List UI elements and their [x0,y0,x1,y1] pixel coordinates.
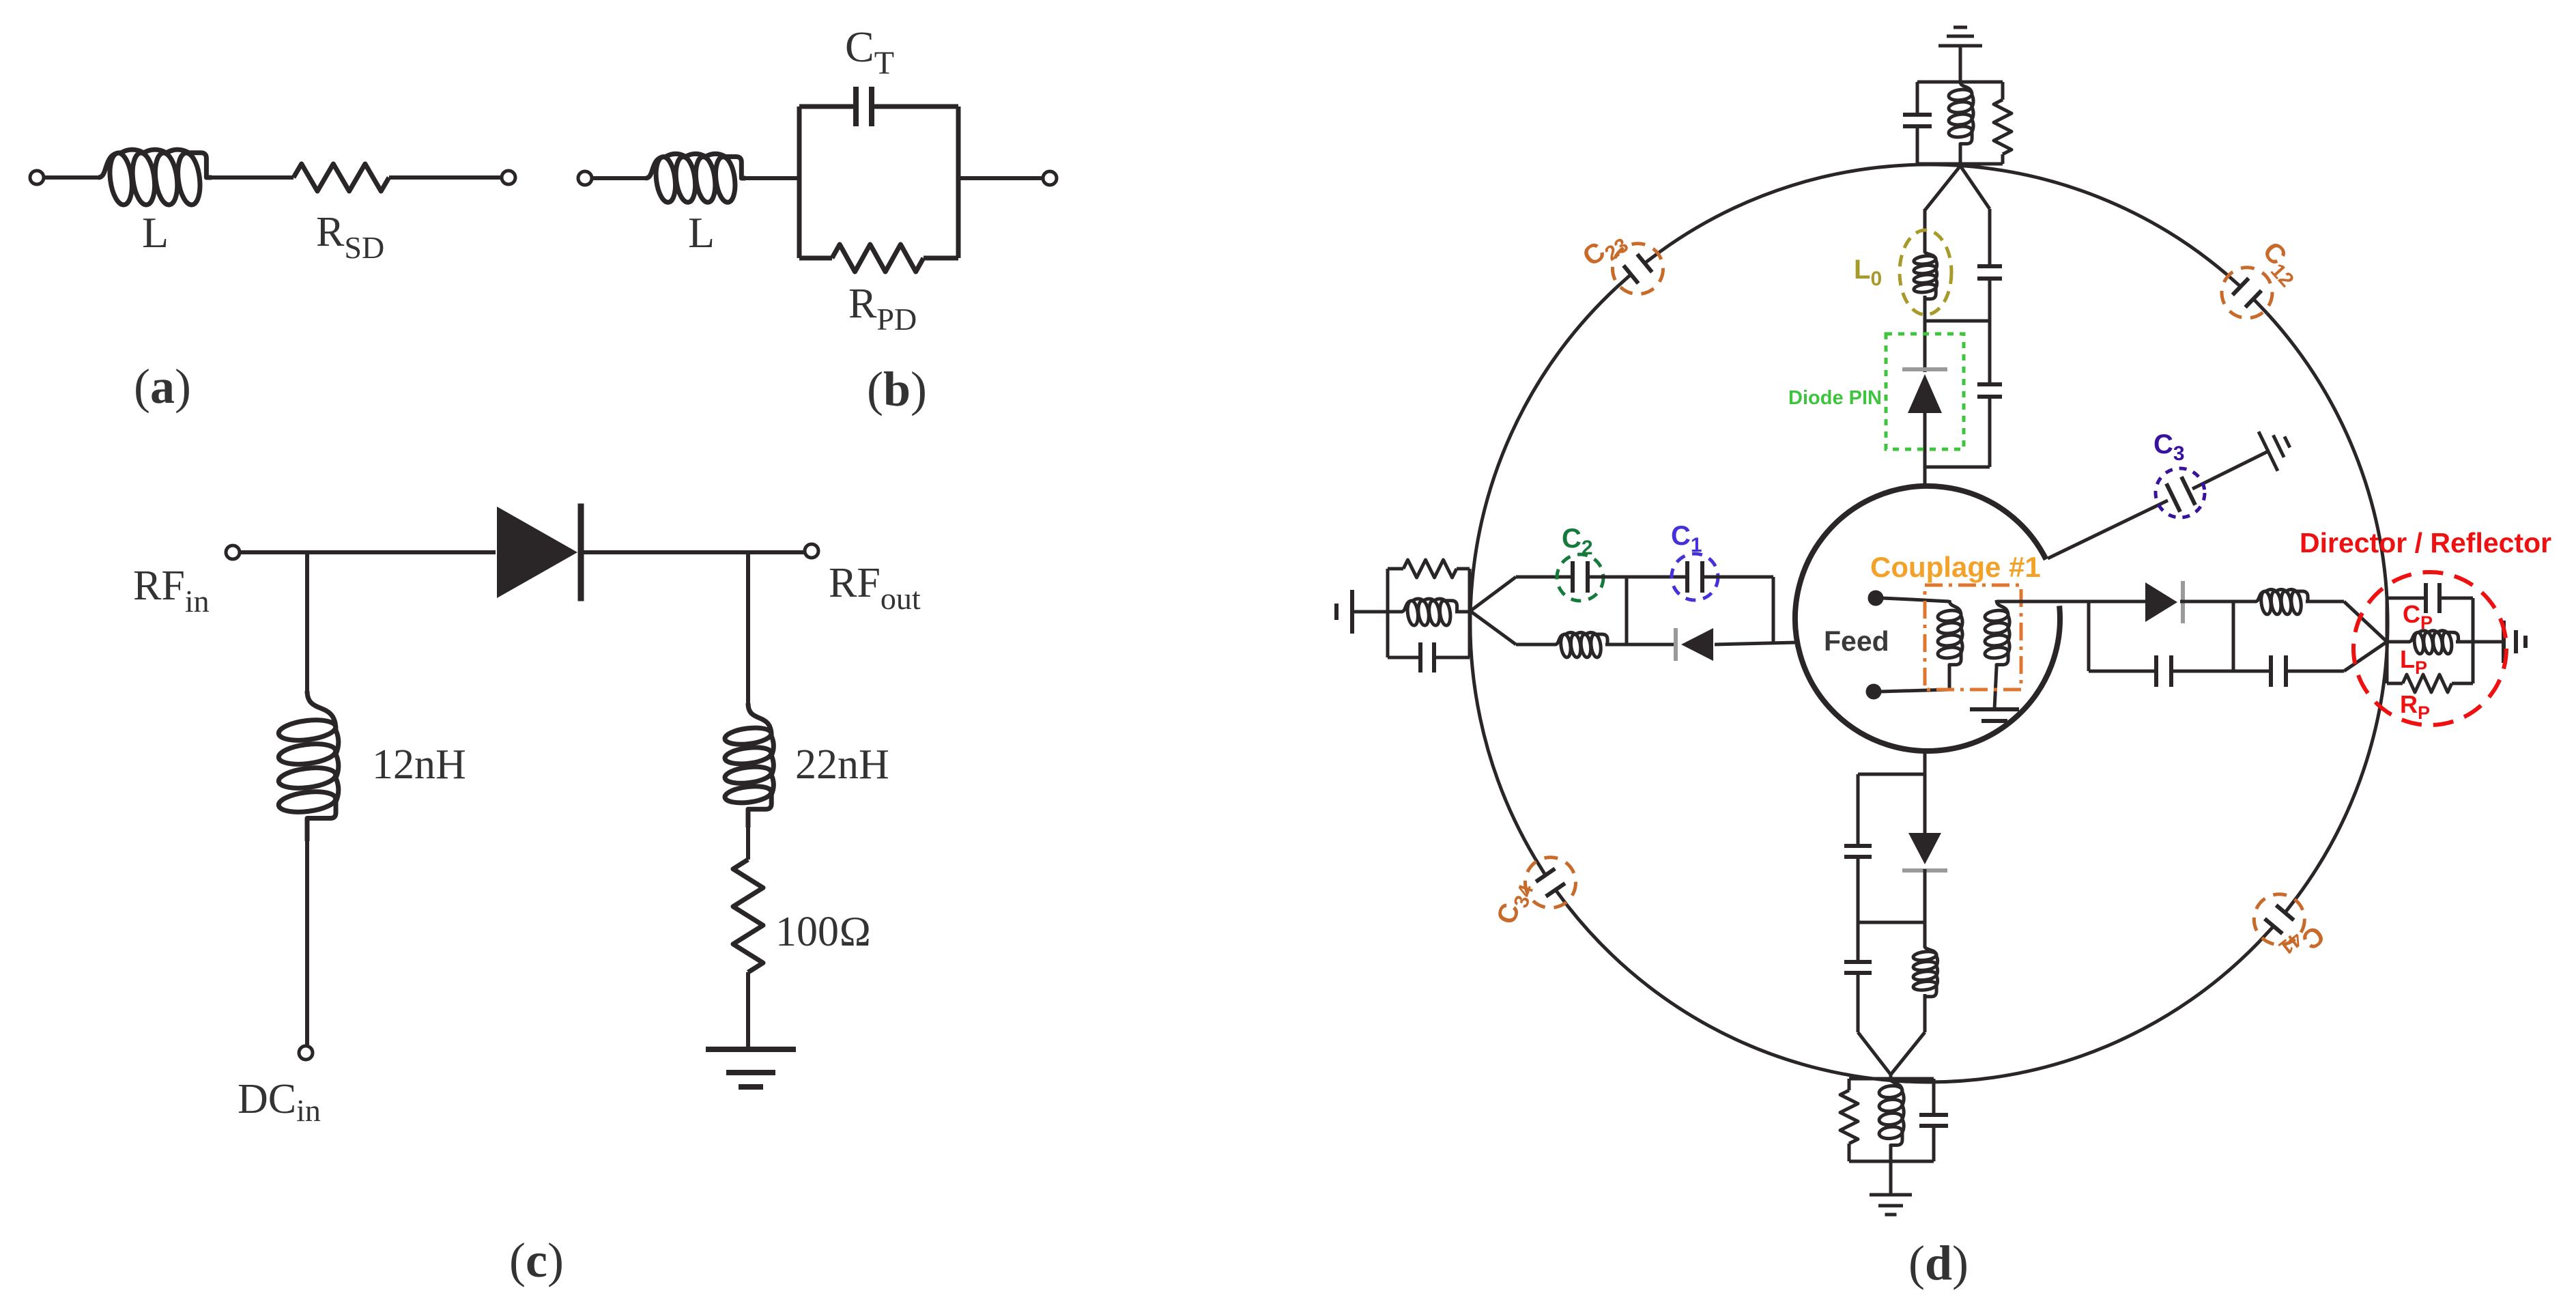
resistor RPD (b) [832,244,924,272]
box top edge left (b) [799,104,854,109]
label C12 (d) [2253,236,2308,292]
top box left edge lower (d) [1916,126,1919,164]
top box right edge stubs (d) [2001,82,2005,164]
wire right lower 3 (d) [2286,670,2344,673]
inductor L (b) [646,154,745,203]
wire bottom-left diagonal (d) [1858,1032,1891,1075]
ground bottom (d) [1870,1195,1912,1215]
ground left (d) [1336,590,1352,634]
inductor 12nH (c) [278,691,339,841]
ground right (d) [2504,621,2525,663]
wire director to ground (d) [2473,640,2504,644]
terminal DCin (c) [299,1046,313,1060]
capacitor bottom branch upper (d) [1844,846,1872,857]
left box left edge (d) [1386,569,1390,657]
wire primary bottom (d) [1948,667,1951,690]
ground (c) [706,1049,796,1087]
box right edge (b) [956,107,961,258]
wire left junction vertical 2 (d) [1772,577,1775,644]
resistor RP (d) [2403,675,2452,692]
inductor 22nH (c) [724,703,774,827]
bottom box left edge upper (d) [1848,1079,1851,1090]
capacitor CT (b) [856,87,872,126]
dashed circle C2 (d) [1557,554,1603,601]
svg-text:Director / Reflector: Director / Reflector [2300,527,2551,558]
svg-text:L: L [142,208,169,257]
terminal RFin (c) [226,545,240,559]
top box bottom edge (d) [1917,162,2003,166]
wire bottom-left vertical 3 (d) [1857,973,1860,1032]
diode PIN box (d) [1886,334,1964,449]
wire left upper 3 (d) [1702,576,1773,579]
svg-text:(b): (b) [867,362,927,416]
label C34 (d) [1491,878,1539,930]
svg-text:(a): (a) [134,359,191,414]
wire secondary bottom to ground (d) [1994,667,1997,709]
director box bottom stub left (d) [2387,682,2403,685]
svg-text:100Ω: 100Ω [775,909,872,955]
wire (a) right [389,175,502,180]
bottom box bottom edge (d) [1849,1160,1934,1163]
diode bottom branch (d) [1902,833,1947,870]
inductor left box (d) [1401,599,1457,626]
wire right upper 2 (d) [2180,600,2257,604]
resistor 100ohm (c) [733,860,763,972]
top box left edge upper (d) [1916,82,1919,115]
box top edge right (b) [874,104,958,109]
wire right lower 2 (d) [2171,670,2271,673]
director box top stub left (d) [2387,597,2426,600]
capacitor top branch upper (d) [1977,266,2002,279]
capacitor C12 on ring (d) [2226,274,2267,314]
transformer secondary coil R (d) [1984,600,2009,668]
diode right branch (d) [2145,581,2183,623]
diode PIN (d) [1902,369,1947,413]
wire bottom-left vertical 2 (d) [1857,857,1860,962]
wire right upper 3 (d) [2306,600,2344,604]
left vertex diagonals (d) [1470,577,1516,644]
wire C3 lower (d) [2048,500,2168,558]
svg-text:Couplage #1: Couplage #1 [1870,551,2041,583]
wire left box middle left (d) [1388,610,1403,614]
feed circle (d) [1795,486,2060,751]
svg-text:L: L [688,208,715,257]
inductor LP (d) [2409,631,2459,655]
wire left lower 1 (d) [1516,643,1556,647]
node top of ring (d) [1925,166,1990,210]
wire right upper 1 (d) [2089,600,2145,604]
bottom box right edge lower (d) [1932,1126,1936,1161]
wire right lower diagonal (d) [2344,642,2387,671]
resistor left box (d) [1403,560,1457,578]
wire LP left (d) [2387,640,2410,644]
subfigure (c): SPST diode switch bias network [133,504,921,1288]
wire bottom connector 2 (d) [1858,921,1925,924]
wire RFin to diode (c) [240,550,496,554]
box left edge (b) [797,107,802,258]
bottom box left edge lower (d) [1848,1144,1851,1161]
wire to DCin (c) [305,840,309,1046]
wire top bottom connector (d) [1925,466,1990,469]
wire (a) left [44,175,100,180]
capacitor C1 (d) [1687,561,1702,593]
wire top-right vertical 2 (d) [1988,279,1992,384]
wire left ground (d) [1352,610,1388,614]
capacitor bottom branch lower (d) [1844,962,1872,973]
wire feed bottom vertical (d) [1923,751,1927,834]
inductor L (a) [98,150,212,206]
label C23 (d) [1577,223,1633,277]
wire coil to resistor (c) [746,826,750,860]
wire diode to RFout (c) [582,550,805,554]
wire feed bottom to transformer (d) [1880,690,1949,692]
svg-text:Feed: Feed [1824,625,1889,657]
bottom box top edge (d) [1849,1077,1934,1081]
left box top stub right (d) [1457,567,1470,571]
inductor left branch (d) [1555,632,1607,657]
capacitor C41 on ring (d) [2260,897,2298,941]
wire diode PIN down (d) [1923,412,1927,487]
wire bottom-right diagonal (d) [1891,1032,1925,1075]
inductor L0 (d) [1913,251,1936,299]
dashed circle C3 (d) [2156,468,2205,518]
wire C3 upper (d) [2192,451,2268,489]
wire left box middle right (d) [1455,610,1470,614]
label C41 (d) [2274,916,2330,969]
wire bottom coil to diagonal (d) [1923,994,1927,1032]
box bottom right stub (b) [924,256,958,261]
wire left junction vertical 1 (d) [1625,577,1629,644]
capacitor CP (d) [2426,583,2439,613]
wire top-right vertical 3 (d) [1988,397,1992,467]
wire (b) right [958,176,1043,180]
feed terminal dot top (d) [1868,591,1883,606]
transformer primary coil L (d) [1937,600,1962,668]
subfigure (b): L + parallel RC model [578,23,1057,416]
svg-text:(c): (c) [509,1233,564,1288]
capacitor top box (d) [1903,115,1932,126]
dashed circle C41 (d) [2254,894,2304,945]
wire top-left vertical upper (d) [1923,209,1927,253]
diode D1 (c) [497,504,581,601]
left box top stub left (d) [1388,567,1403,571]
capacitor C23 on ring (d) [1616,251,1661,288]
diode left branch (d) [1676,628,1713,661]
wire right junction vertical 1 (d) [2087,601,2091,671]
resistor top box (d) [1994,100,2012,154]
dashed circle Director (d) [2353,572,2506,725]
capacitor bottom box (d) [1919,1115,1948,1126]
capacitor top branch lower (d) [1977,384,2002,397]
wire resistor to ground (c) [746,972,750,1049]
wire right upper diagonal (d) [2344,601,2387,642]
director box left edge (d) [2386,598,2389,683]
wire top-right vertical 1 (d) [1988,209,1992,266]
dashed circle C34 (d) [1526,857,1576,908]
terminal right (b) [1043,171,1057,185]
inductor bottom box (d) [1878,1079,1904,1146]
node RFout junction (c) [746,552,750,705]
wire top mid connector (d) [1925,320,1990,323]
wire right junction vertical 2 (d) [2232,601,2235,671]
svg-text:22nH: 22nH [795,741,889,788]
terminal left (b) [578,171,592,185]
left box right edge (d) [1468,569,1472,657]
wire ground to top box (d) [1959,46,1962,82]
capacitor C3 plates (d) [2166,477,2195,511]
terminal RFout (c) [805,544,818,558]
dashed ellipse L0 (d) [1900,230,1951,315]
dashed circle C1 (d) [1672,554,1718,600]
antenna ring (big circle) (d) [1470,165,2388,1082]
inductor right branch (d) [2255,589,2308,614]
resistor bottom box (d) [1840,1090,1858,1144]
wire left lower 3 (d) [1715,642,1797,644]
ground feed (d) [1970,709,2019,721]
wire L0 to diode (d) [1923,296,1927,372]
terminal left (a) [30,171,44,184]
wire right feed out (d) [1997,600,2089,604]
capacitor C34 on ring (d) [1535,858,1568,906]
wire (b) left [592,176,647,180]
left box bottom stub right (d) [1434,656,1470,660]
subfigure (d): reconfigurable antenna schematic [1336,27,2551,1290]
wire (b) to box [744,176,799,180]
subfigure (a): series L + R_SD model [30,150,515,414]
inductor bottom branch (d) [1913,946,1937,997]
wire left upper 2 (d) [1588,576,1687,579]
wire (a) middle [210,175,294,180]
wire top box coil to node (d) [1959,143,1962,166]
dashed circle C23 (d) [1613,244,1663,294]
wire left lower 2 (d) [1605,643,1676,647]
ground C3 (d) [2259,431,2290,471]
dashed circle C12 (d) [2222,268,2272,318]
director box bottom stub right (d) [2452,682,2473,685]
wire diode to connector (d) [1923,869,1927,948]
wire bottom-left vertical 1 (d) [1857,774,1860,846]
node RFin junction (c) [305,552,309,692]
wire bottom box to ground (d) [1889,1161,1893,1195]
resistor RSD (a) [294,164,389,191]
left box bottom stub left (d) [1388,656,1420,660]
wire left upper 1 (d) [1516,576,1573,579]
wire bottom box coil stub (d) [1889,1144,1893,1161]
node bottom vertex stub (d) [1889,1075,1893,1079]
terminal right (a) [502,171,515,184]
capacitor right branch 1 (d) [2156,655,2171,687]
capacitor right branch 2 (d) [2271,655,2286,687]
ground top (d) [1938,27,1982,46]
director box right edge (d) [2472,598,2475,683]
box bottom left stub (b) [799,256,832,261]
wire LP right (d) [2456,640,2473,644]
top box top edge (d) [1917,81,2003,84]
bottom box right edge upper (d) [1932,1079,1936,1115]
feed terminal dot bottom (d) [1866,684,1881,699]
wire bottom connector 1 (d) [1858,773,1925,776]
inductor top box (d) [1948,82,1973,145]
wire feed top to transformer (d) [1882,598,1949,601]
capacitor left box (d) [1420,642,1434,672]
svg-text:(d): (d) [1908,1236,1969,1290]
svg-text:12nH: 12nH [372,741,466,788]
couplage box (d) [1925,585,2021,690]
wire right lower 1 (d) [2089,670,2156,673]
capacitor C2 (d) [1573,561,1588,593]
svg-text:Diode PIN: Diode PIN [1788,387,1882,409]
director box top stub right (d) [2439,597,2473,600]
